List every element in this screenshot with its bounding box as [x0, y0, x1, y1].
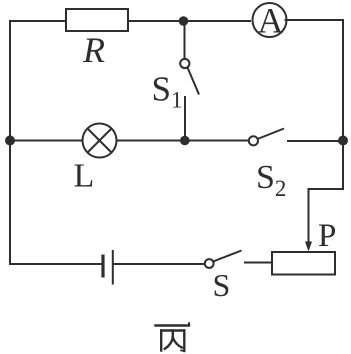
switch S2 pivot: [249, 136, 258, 145]
svg-text:S: S: [213, 267, 231, 303]
switch S1 blade: [188, 68, 200, 95]
ammeter A: [253, 3, 287, 37]
wire S2 to right junction: [287, 140, 343, 142]
wire left vertical: [9, 20, 11, 265]
switch S2 blade: [258, 129, 285, 140]
wire ammeter to right corner: [285, 19, 345, 21]
svg-text:S2: S2: [256, 159, 286, 201]
node left junction: [5, 136, 15, 146]
node right junction: [338, 136, 348, 146]
switch S blade: [213, 251, 242, 262]
wire S to rheostat: [244, 262, 272, 264]
wire top-left to resistor: [9, 20, 66, 22]
wire battery to S: [114, 263, 206, 265]
svg-text:A: A: [258, 0, 284, 40]
wire lamp to S2: [117, 140, 250, 142]
svg-text:S1: S1: [152, 70, 183, 113]
resistor R: [66, 9, 128, 31]
wire bottom-left to battery: [9, 263, 102, 265]
wire S1 upper: [184, 21, 186, 59]
wire wiper vertical: [308, 188, 310, 243]
rheostat P body: [272, 252, 335, 275]
wire step horizontal: [308, 188, 344, 190]
svg-text:P: P: [318, 218, 336, 254]
switch S pivot: [205, 259, 214, 268]
wire S1 lower: [184, 96, 186, 141]
node top junction: [179, 16, 189, 26]
node middle junction: [180, 136, 190, 146]
battery cell: [103, 250, 113, 285]
svg-text:L: L: [74, 158, 95, 195]
lamp L: [83, 124, 117, 158]
label bing caption (drawn glyph): [156, 323, 190, 351]
wiper arrowhead: [305, 242, 312, 252]
wire middle left segment: [10, 140, 83, 142]
svg-text:R: R: [82, 30, 105, 70]
switch S1 pivot: [180, 59, 189, 68]
wire right vertical: [342, 19, 344, 190]
wire resistor to ammeter: [128, 20, 251, 22]
